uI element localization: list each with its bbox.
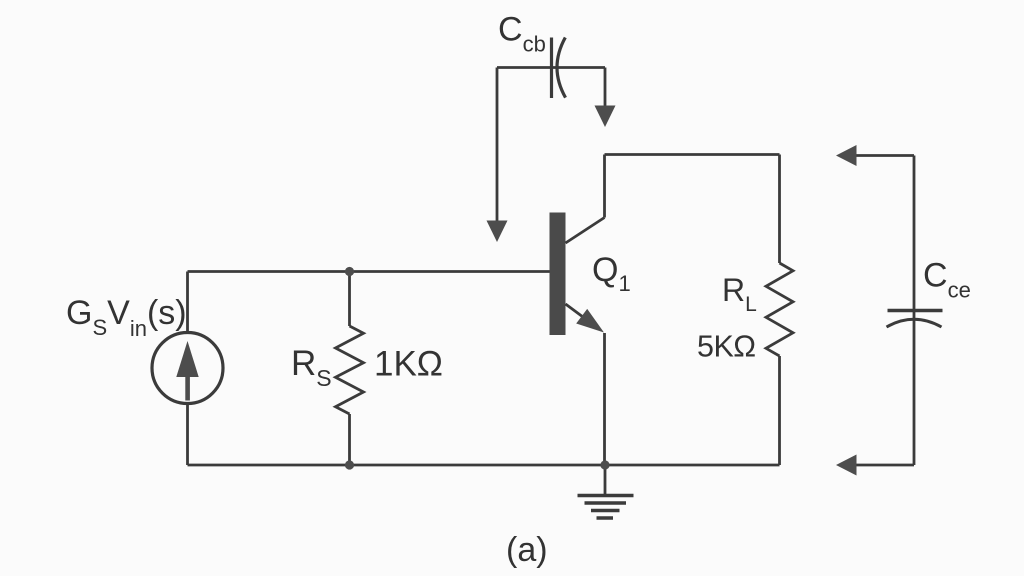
wire emitter vertical — [603, 333, 606, 465]
wire collector vertical — [603, 155, 606, 218]
node dot RS bottom — [345, 460, 354, 469]
wire top horizontal — [605, 153, 780, 156]
wire RL top — [778, 155, 781, 264]
ground — [578, 465, 634, 518]
capacitor Cce — [887, 156, 943, 466]
Cce curved plate — [887, 319, 942, 327]
wire Ccb left branch down — [487, 68, 508, 243]
transistor Q1 emitter lead — [566, 304, 605, 333]
wire base horizontal — [188, 270, 550, 273]
wire RS top — [348, 272, 351, 327]
wire left vertical bottom — [186, 404, 189, 466]
wire Cce bottom arrow — [836, 455, 914, 476]
wire Ccb right branch down — [595, 68, 616, 128]
Ccb curved plate — [557, 38, 566, 98]
wire Ccb horizontal — [497, 66, 605, 69]
resistor RL — [766, 263, 793, 356]
svg-text:(a): (a) — [506, 531, 548, 569]
wire bottom horizontal — [188, 464, 780, 467]
transistor Q1 collector lead — [566, 218, 605, 244]
wire left vertical top — [186, 272, 189, 333]
node dot emitter bottom — [600, 460, 609, 469]
wire RS bottom — [348, 414, 351, 465]
resistor RS — [336, 326, 364, 414]
svg-text:5KΩ: 5KΩ — [697, 330, 756, 364]
wire Cce top arrow — [836, 145, 914, 166]
current source arrow — [176, 341, 198, 401]
node dot RS top — [345, 267, 354, 276]
capacitor Ccb — [497, 38, 605, 99]
current source circle — [152, 333, 223, 404]
Ccb flat plate — [550, 38, 553, 99]
svg-text:1KΩ: 1KΩ — [374, 345, 443, 384]
wire RL bottom — [778, 356, 781, 465]
transistor Q1 base bar — [550, 213, 566, 336]
wire Cce vertical — [913, 156, 916, 466]
Cce flat plate — [888, 309, 943, 312]
